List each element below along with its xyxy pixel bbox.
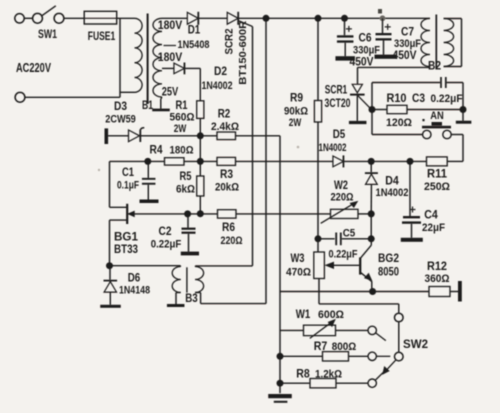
svg-text:90kΩ: 90kΩ (284, 106, 308, 118)
svg-text:22μF: 22μF (422, 222, 445, 234)
svg-text:3CT20: 3CT20 (325, 98, 351, 110)
svg-text:BT33: BT33 (114, 244, 138, 256)
svg-text:B3: B3 (185, 293, 198, 305)
svg-text:SW2: SW2 (403, 339, 428, 351)
svg-text:R8: R8 (296, 369, 310, 381)
svg-text:0.22μF: 0.22μF (151, 239, 182, 251)
svg-text:6kΩ: 6kΩ (176, 184, 195, 196)
svg-text:470Ω: 470Ω (286, 267, 311, 279)
svg-text:2.4kΩ: 2.4kΩ (211, 121, 239, 133)
svg-text:2W: 2W (289, 117, 302, 129)
svg-text:450V: 450V (393, 50, 417, 62)
svg-text:D4: D4 (385, 176, 399, 188)
svg-text:C4: C4 (424, 210, 438, 222)
svg-text:1N4148: 1N4148 (119, 285, 150, 297)
svg-text:R12: R12 (427, 261, 447, 273)
svg-text:BG2: BG2 (378, 253, 399, 265)
svg-text:R3: R3 (220, 169, 233, 181)
svg-text:560Ω: 560Ω (170, 112, 195, 124)
svg-text:180V: 180V (158, 52, 183, 64)
svg-text:2CW59: 2CW59 (105, 114, 136, 126)
svg-text:AC220V: AC220V (16, 61, 51, 75)
svg-text:C1: C1 (122, 167, 134, 179)
svg-text:C3: C3 (412, 93, 425, 105)
svg-text:BG1: BG1 (114, 232, 139, 244)
svg-text:1N4002: 1N4002 (319, 142, 347, 154)
svg-text:D2: D2 (214, 66, 227, 78)
svg-text:1N4002: 1N4002 (376, 187, 409, 199)
svg-text:330μF: 330μF (394, 38, 421, 50)
svg-text:220Ω: 220Ω (331, 192, 354, 204)
svg-text:R10: R10 (387, 93, 407, 105)
svg-text:0.1μF: 0.1μF (117, 180, 139, 192)
svg-text:800Ω: 800Ω (332, 341, 357, 353)
svg-text:C7: C7 (401, 27, 414, 39)
svg-text:20kΩ: 20kΩ (215, 182, 239, 194)
svg-text:R9: R9 (290, 93, 303, 105)
svg-text:R11: R11 (427, 169, 448, 181)
svg-text:W1: W1 (296, 309, 311, 321)
svg-text:1.2kΩ: 1.2kΩ (315, 369, 342, 381)
svg-text:C2: C2 (159, 226, 172, 238)
svg-text:2W: 2W (174, 123, 187, 135)
svg-text:0.22μF: 0.22μF (431, 93, 463, 105)
svg-text:BT150-600R: BT150-600R (237, 20, 249, 84)
svg-text:D3: D3 (114, 101, 127, 113)
svg-text:R7: R7 (314, 341, 328, 353)
svg-text:D6: D6 (128, 273, 141, 285)
svg-text:R4: R4 (150, 145, 164, 157)
svg-text:B1: B1 (142, 100, 153, 112)
svg-text:W2: W2 (334, 180, 348, 192)
svg-text:600Ω: 600Ω (318, 309, 344, 321)
svg-text:0.22μF: 0.22μF (329, 249, 358, 261)
svg-text:C6: C6 (359, 33, 372, 45)
svg-text:AN: AN (430, 110, 444, 122)
svg-text:180V: 180V (158, 20, 183, 32)
svg-text:8050: 8050 (378, 267, 399, 279)
svg-text:D5: D5 (333, 129, 346, 141)
svg-text:25V: 25V (162, 87, 179, 99)
svg-text:1N4002: 1N4002 (202, 80, 233, 92)
svg-text:220Ω: 220Ω (221, 235, 243, 247)
svg-text:SW1: SW1 (38, 29, 57, 41)
svg-text:180Ω: 180Ω (170, 145, 194, 157)
svg-text:120Ω: 120Ω (386, 117, 412, 129)
svg-text:SCR1: SCR1 (325, 85, 348, 97)
svg-text:R1: R1 (176, 100, 188, 112)
svg-text:360Ω: 360Ω (425, 273, 450, 285)
svg-text:FUSE1: FUSE1 (88, 31, 116, 43)
svg-text:R6: R6 (222, 222, 235, 234)
svg-text:250Ω: 250Ω (424, 181, 450, 193)
svg-text:C5: C5 (343, 228, 356, 240)
svg-text:W3: W3 (291, 253, 305, 265)
svg-text:SCR2: SCR2 (224, 29, 236, 55)
svg-text:1N5408: 1N5408 (178, 39, 210, 51)
svg-text:R2: R2 (218, 109, 231, 121)
svg-text:R5: R5 (180, 171, 192, 183)
svg-text:D1: D1 (188, 25, 201, 37)
